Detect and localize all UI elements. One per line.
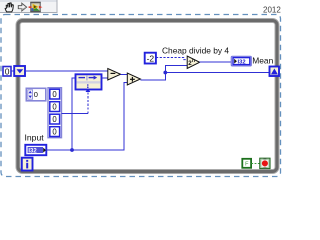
- rotate-buffer node: [76, 74, 102, 89]
- constant 0 (shift register initializer): [3, 67, 11, 77]
- svg-text:n: n: [192, 58, 195, 64]
- toolbar forward-arrow icon: [18, 3, 26, 11]
- array constant index spinner: [26, 88, 46, 101]
- loop iteration terminal i: [22, 158, 33, 171]
- svg-text:0: 0: [5, 67, 10, 77]
- right shift register: [270, 67, 280, 77]
- toolbar hand icon: [5, 3, 13, 12]
- while loop border: [18, 21, 277, 172]
- constant -2: [145, 53, 156, 64]
- wire: array constant to rotate node lower input: [62, 113, 89, 115]
- svg-text:0: 0: [52, 127, 57, 136]
- dashed wire: -2 to scale node: [156, 58, 187, 60]
- Input control terminal [I32]: [25, 145, 46, 155]
- wire: Input terminal rightward: [46, 149, 124, 151]
- svg-text:Cheap divide by 4: Cheap divide by 4: [162, 45, 229, 55]
- svg-text:2012: 2012: [263, 5, 281, 14]
- array element 0: [50, 89, 60, 99]
- snippet toolbar panel: [0, 0, 58, 13]
- wire: left shift register to subtract: [25, 70, 108, 72]
- array constant element column: [48, 88, 62, 138]
- svg-text:0: 0: [52, 102, 57, 111]
- junction dot on input wire: [70, 148, 74, 152]
- left shift register: [14, 66, 25, 76]
- wire: add output to junction and right shift register: [140, 66, 187, 80]
- svg-text:0: 0: [52, 115, 57, 124]
- dashed wire segment rising into node bottom: [87, 91, 89, 114]
- array element 1: [50, 102, 60, 112]
- loop conditional (stop) terminal: [260, 158, 270, 168]
- svg-text:0: 0: [52, 90, 57, 99]
- add function: [127, 73, 140, 85]
- toolbar VI snippet icon: [29, 2, 43, 12]
- svg-text:0: 0: [34, 90, 38, 99]
- array element 3: [50, 127, 60, 137]
- wire: node output to subtract lower input: [102, 77, 109, 79]
- array element 2: [50, 114, 60, 124]
- scale-by-power-of-2 function: [187, 56, 200, 69]
- svg-text:I32: I32: [28, 148, 37, 154]
- wire: riser to add lower input: [124, 83, 128, 151]
- svg-text:-2: -2: [147, 53, 155, 63]
- boolean constant F: [242, 159, 251, 168]
- dashed boolean wire to conditional terminal: [251, 163, 260, 165]
- wire: scale output to Mean indicator: [200, 61, 232, 63]
- node bottom input arrowhead: [86, 89, 91, 93]
- selection marquee dashed rectangle: [1, 15, 281, 177]
- wire: riser from junction to node left input: [72, 78, 76, 150]
- wire: 0 constant to left shift register: [11, 70, 15, 72]
- svg-text:Mean: Mean: [252, 56, 273, 66]
- wire: subtract to add: [121, 73, 128, 75]
- junction dot: [163, 71, 167, 75]
- svg-text:Input: Input: [25, 132, 45, 142]
- subtract function: [108, 69, 121, 81]
- svg-text:I32: I32: [238, 60, 246, 66]
- Mean indicator terminal: [231, 56, 251, 66]
